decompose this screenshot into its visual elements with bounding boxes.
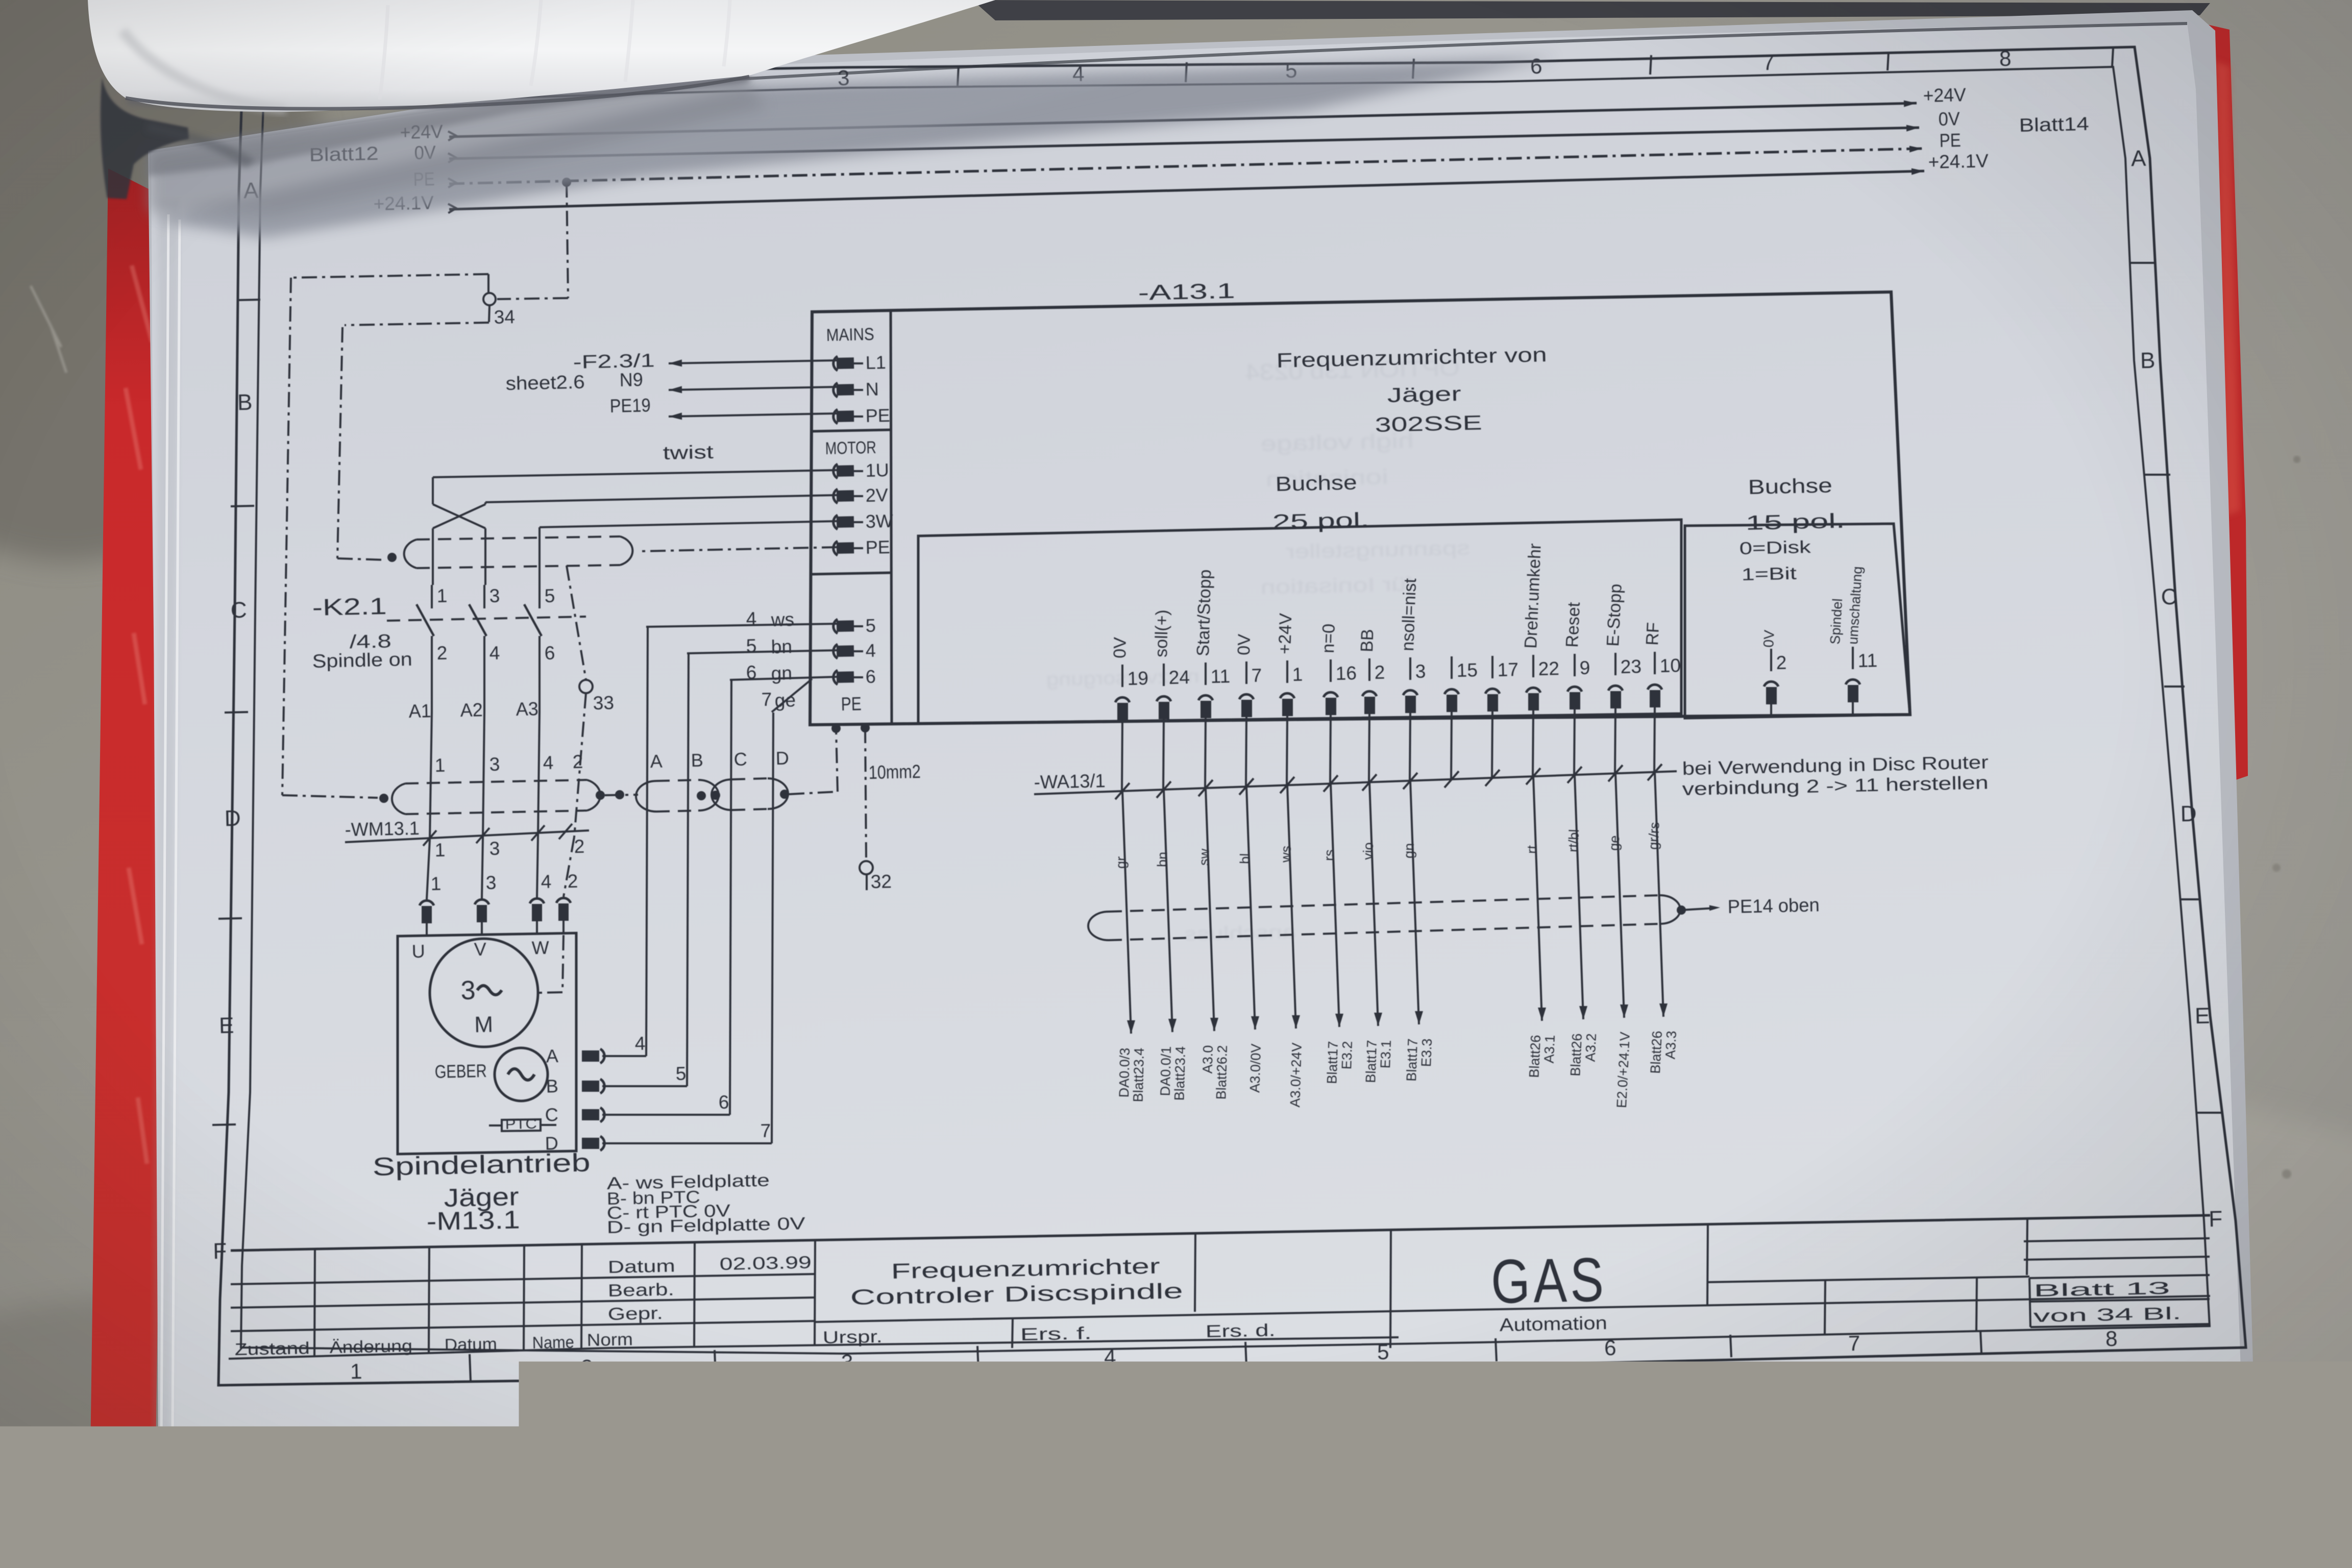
cable tick <box>1198 780 1213 796</box>
drawing frame outer border <box>218 47 2246 1385</box>
shield drop left V1 (dash-dot) <box>282 278 291 795</box>
circle34 lower branch (dash-dot) <box>345 323 489 325</box>
wire gr/rs down to destination <box>1655 772 1663 1017</box>
motor circle 3~ M <box>430 939 538 1047</box>
node on PE bus <box>562 178 571 187</box>
title block top line <box>231 1215 2210 1251</box>
motor box -M13.1 <box>398 933 576 1154</box>
wire from pin 16 down <box>1330 715 1331 783</box>
contact 1/2 of K2.1 <box>431 585 433 608</box>
pin 1 of 25-pol <box>1286 660 1288 683</box>
pin symbol 3 <box>1403 690 1417 695</box>
wire from pin 11 down <box>1205 718 1206 788</box>
wire rt down to destination <box>1533 776 1542 1021</box>
shield nodes <box>379 794 388 803</box>
wire from pin 23 down <box>1615 708 1615 773</box>
wire L1 feeder <box>669 360 837 363</box>
wire from pin 7 down <box>1246 717 1246 787</box>
wires to motor terminals <box>427 840 430 899</box>
dash-dot into motor <box>562 935 563 992</box>
block left column divider <box>891 310 892 724</box>
cable tick <box>1362 774 1377 791</box>
pin 23 of 25-pol <box>1614 653 1616 675</box>
wire bl down to destination <box>1246 787 1255 1030</box>
wire from pin 24 down <box>1163 719 1164 790</box>
wire to PE14 oben <box>1681 908 1715 910</box>
MOTOR section divider <box>812 573 892 574</box>
pin symbol 22 <box>1526 688 1540 693</box>
MAINS section divider <box>812 430 892 431</box>
pin symbol 11 <box>1198 695 1213 700</box>
cable tick <box>1567 767 1582 783</box>
pin symbol 2 <box>1764 681 1778 687</box>
K2.1 link line (dashed) <box>387 617 586 621</box>
phase wires down to WM cable <box>430 712 432 840</box>
WM cable shield ellipse <box>392 783 405 814</box>
cable tick <box>1239 778 1254 795</box>
pin 4 <box>834 644 838 658</box>
shield drain node <box>1677 905 1686 915</box>
wire from pin 17 down <box>1492 712 1492 779</box>
dash-dot between shields <box>605 795 638 795</box>
wire from pin 3 down <box>1410 713 1410 781</box>
pin symbol 16 <box>1324 692 1338 697</box>
shield ellipse A-B <box>636 781 656 812</box>
title verticals left <box>314 1249 315 1356</box>
shield nodes <box>697 791 706 800</box>
pin symbol 7 <box>1239 694 1254 699</box>
pin 16 of 25-pol <box>1330 659 1332 682</box>
Urspr row top line <box>815 1311 1391 1322</box>
cable tick <box>1444 771 1459 788</box>
pin symbol 24 <box>1157 696 1171 701</box>
15-pol sub-box <box>1685 524 1910 718</box>
pin 17 of 25-pol <box>1491 656 1493 678</box>
contact 5/6 of K2.1 <box>538 585 541 608</box>
pin symbol 23 <box>1608 685 1623 691</box>
upper cable shield ellipse <box>404 540 416 568</box>
25-pol sub-box <box>918 520 1681 724</box>
wire 0V bus <box>449 128 1919 159</box>
GEBER circle <box>495 1048 548 1101</box>
title text box <box>1195 1233 1195 1312</box>
pin symbol 15 <box>1444 689 1459 694</box>
PE stub node <box>831 724 841 733</box>
pin 2 of 15-pol <box>1770 649 1772 671</box>
divider after Ers d <box>1390 1230 1391 1348</box>
wire rs down to destination <box>1331 783 1339 1027</box>
PTC box <box>489 1124 502 1126</box>
wire from pin 15 down <box>1451 712 1452 780</box>
right title structure <box>2027 1218 2027 1275</box>
dash-dot drop to circle 33 <box>567 566 586 680</box>
pin 6 <box>834 670 838 684</box>
wire gn down to destination <box>1410 781 1419 1024</box>
pin symbol 17 <box>1485 689 1500 694</box>
cable tick <box>1403 773 1417 789</box>
wire sw down to destination <box>1206 788 1214 1031</box>
GAS cell divider <box>1707 1224 1708 1305</box>
pin L1 <box>834 356 838 371</box>
pin 10 of 25-pol <box>1654 652 1656 674</box>
wire ws down to destination <box>1287 785 1296 1028</box>
wire C to riser 6 <box>602 1114 730 1116</box>
pin 2V <box>834 489 838 503</box>
title row lines left part <box>231 1274 815 1284</box>
pin 11 of 15-pol <box>1852 647 1854 669</box>
cable tick <box>559 824 572 839</box>
wire from pin 2 down <box>1369 714 1369 782</box>
cable shield ellipse (WA13/1) <box>1088 912 1109 940</box>
shield node <box>387 553 397 562</box>
cable tick <box>1485 770 1500 786</box>
cable tick <box>1526 768 1540 785</box>
wire PE drop to node 34 (dash-dot) <box>567 182 568 298</box>
wire +24V bus <box>449 103 1917 137</box>
wire rt/bl down to destination <box>1575 775 1583 1019</box>
pin symbol 2 <box>1362 691 1377 696</box>
divider Ers f <box>1012 1318 1013 1348</box>
connector circle 32 <box>860 861 873 874</box>
cable tick <box>476 828 489 843</box>
PE dash-dot from block to shield <box>640 547 837 551</box>
wire gr down to destination <box>1122 791 1131 1034</box>
wire A to riser 4 <box>602 1055 646 1057</box>
pin 9 of 25-pol <box>1574 654 1576 676</box>
shield box top (dash-dot) <box>291 274 488 278</box>
wire ge down to destination <box>1615 773 1624 1018</box>
pin 3W <box>834 515 838 529</box>
pin 7 of 25-pol <box>1245 661 1247 684</box>
wire stub pin 2 <box>1770 704 1772 716</box>
pin symbol 10 <box>1648 684 1662 690</box>
pin 2 of 25-pol <box>1368 658 1370 681</box>
Blatt box <box>2029 1275 2210 1278</box>
wire vio down to destination <box>1369 782 1378 1026</box>
pin 1U <box>834 464 838 478</box>
pin PE motor <box>834 541 838 555</box>
shield ellipse C-D <box>712 779 732 810</box>
pin 3 of 25-pol <box>1409 657 1411 680</box>
pin 19 of 25-pol <box>1121 665 1123 687</box>
dash-dot shield link to PE stub <box>789 792 838 794</box>
wire from pin 10 down <box>1654 707 1655 772</box>
cable tick <box>1157 781 1171 798</box>
wire from pin 1 down <box>1287 716 1287 785</box>
pin 11 of 25-pol <box>1205 663 1207 685</box>
twist wires 1U/2V/3W <box>433 470 837 477</box>
dash-dot 33 to WM row <box>574 693 586 837</box>
pin symbol 9 <box>1567 687 1582 692</box>
wire B to riser 5 <box>602 1085 687 1087</box>
pin 15 of 25-pol <box>1451 656 1453 679</box>
wire from pin 19 down <box>1122 720 1122 791</box>
wire bn down to destination <box>1164 790 1172 1032</box>
connector circle 34 <box>483 293 496 305</box>
pin PE mains <box>834 409 838 424</box>
dash-dot wire 2 <box>563 837 574 897</box>
cable tick <box>1280 777 1294 793</box>
riser top bends <box>646 624 837 627</box>
wire from pin 22 down <box>1533 710 1533 776</box>
wire stub pin 11 <box>1852 702 1854 715</box>
cable tick <box>423 830 436 846</box>
wire from pin 9 down <box>1574 709 1575 775</box>
pin 22 of 25-pol <box>1532 655 1534 677</box>
pin symbol 1 <box>1280 693 1294 698</box>
title bottom line <box>229 1348 608 1359</box>
pin symbol 11 <box>1846 679 1860 684</box>
drawing frame inner border <box>241 67 2210 1354</box>
contact 3/4 of K2.1 <box>483 585 485 608</box>
cable tick <box>1608 765 1623 781</box>
pin symbol 19 <box>1115 697 1130 702</box>
wire +24.1V bus <box>449 171 1924 209</box>
cable tick <box>1115 783 1130 799</box>
cable tick <box>1324 775 1338 792</box>
cable -WM13.1 line <box>345 830 589 842</box>
cable tick <box>1648 764 1662 780</box>
wire N feeder <box>669 387 837 390</box>
circle 33 <box>579 680 593 693</box>
cable tick <box>531 825 545 841</box>
frequency converter block -A13.1 outline <box>810 292 1910 725</box>
PE stub 2 to bolt 32 <box>861 723 870 732</box>
pin 24 of 25-pol <box>1163 664 1165 686</box>
wire PE feeder <box>669 413 837 416</box>
wire D to riser 7 <box>602 1142 772 1144</box>
wire PE bus (dash-dot) <box>449 149 1922 184</box>
cable -WA13/1 line <box>1034 771 1677 794</box>
pin N <box>834 383 838 397</box>
pin 5 <box>834 619 838 633</box>
